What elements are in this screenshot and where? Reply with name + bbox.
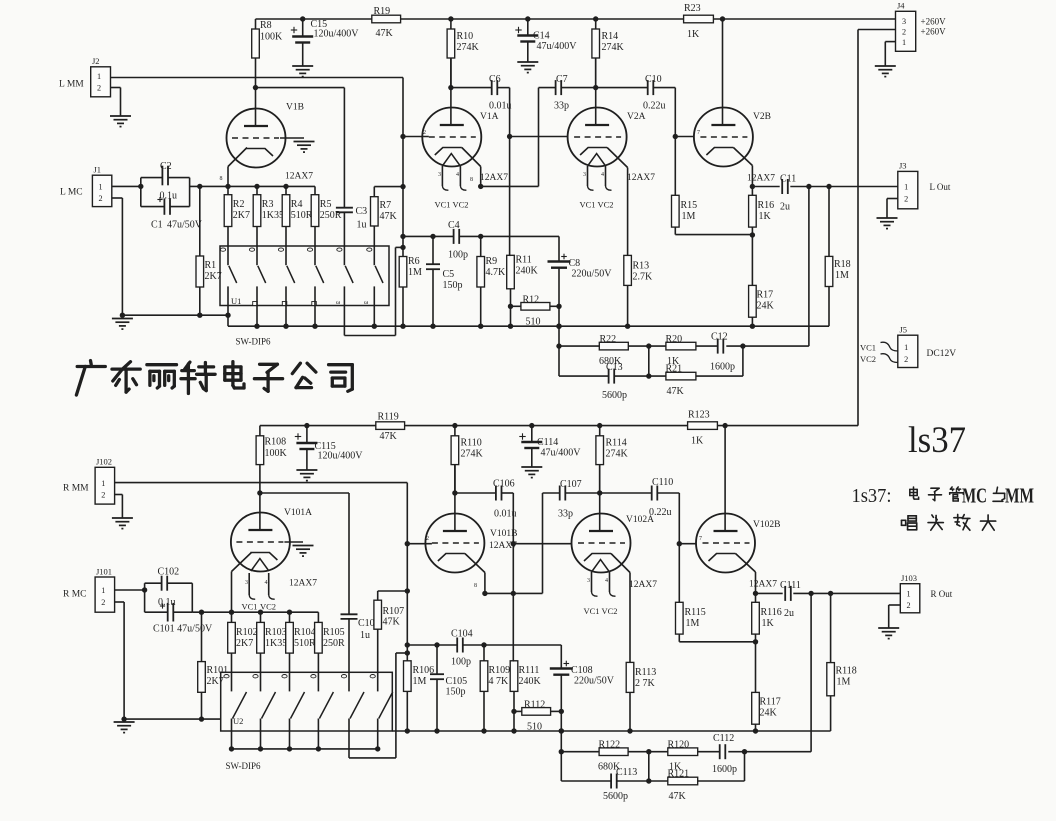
svg-text:R14: R14 — [602, 31, 619, 42]
connector J1 — [92, 175, 111, 206]
svg-text:V1B: V1B — [286, 103, 304, 113]
svg-text:12AX7: 12AX7 — [289, 579, 317, 589]
svg-text:VC2: VC2 — [860, 354, 876, 364]
triode V101A — [231, 513, 290, 572]
node feedback X3 — [740, 343, 745, 348]
svg-text:R19: R19 — [374, 6, 391, 17]
resistor R105 — [315, 622, 323, 653]
svg-text:C12: C12 — [711, 332, 728, 343]
svg-text:274K: 274K — [606, 449, 629, 460]
svg-text:1: 1 — [97, 72, 101, 81]
wire anode to C3 column — [256, 87, 345, 89]
svg-text:R12: R12 — [523, 295, 540, 306]
wire anode to C103 column — [260, 492, 349, 494]
wire ground bus upper (bottom) — [124, 718, 221, 720]
resistor R104 — [286, 622, 294, 653]
svg-text:R8: R8 — [260, 20, 272, 31]
wire J102 pin2 to ground — [115, 494, 123, 496]
connector J3 — [898, 171, 918, 208]
wire main ground bus (bottom) — [392, 730, 830, 732]
vc pins V2A — [587, 166, 589, 186]
ground under C15 — [292, 65, 313, 67]
wire ground bus upper — [122, 314, 228, 316]
capacitor C102 — [145, 582, 162, 584]
wire V2B grid — [675, 136, 694, 138]
node grid column junctions — [400, 184, 405, 189]
svg-text:R118: R118 — [836, 666, 857, 677]
capacitor C14 — [527, 19, 529, 35]
svg-text:100p: 100p — [451, 657, 471, 668]
svg-text:J4: J4 — [897, 1, 905, 11]
wire MM grid column — [402, 78, 404, 257]
svg-text:1600p: 1600p — [712, 764, 737, 775]
svg-text:3: 3 — [583, 172, 586, 178]
wire U2 cols to dip bus — [260, 719, 262, 749]
wire input block sides (bottom) — [144, 583, 146, 612]
wire V102A grid — [513, 543, 571, 545]
resistor R2 — [224, 195, 232, 227]
svg-text:R7: R7 — [380, 200, 392, 211]
resistor R5 — [311, 195, 319, 227]
svg-text:C102: C102 — [158, 567, 180, 578]
capacitor C7 — [539, 87, 556, 89]
svg-text:J101: J101 — [96, 567, 112, 577]
node grid column junctions (bottom) — [405, 588, 410, 593]
svg-text:C1: C1 — [151, 220, 163, 231]
vc pins V102A — [591, 572, 593, 592]
resistor R113 — [626, 662, 634, 692]
node V1A anode — [448, 85, 453, 90]
svg-text:33p: 33p — [554, 101, 569, 112]
wire V102A cathode to R113 — [611, 554, 630, 573]
wire V1A cathode — [462, 148, 481, 167]
svg-text:33p: 33p — [558, 509, 573, 520]
switch pole in U2 at x=260 — [260, 672, 262, 691]
node V101B anode — [452, 490, 457, 495]
svg-text:R117: R117 — [760, 697, 781, 708]
svg-text:R108: R108 — [265, 437, 287, 448]
svg-text:12AX7: 12AX7 — [749, 580, 777, 590]
svg-text:8: 8 — [220, 176, 223, 182]
wire C107 to V101B cathode — [542, 493, 544, 593]
svg-text:MC: MC — [962, 484, 987, 508]
svg-text:C106: C106 — [493, 479, 515, 490]
switch pole in U2 at x=318 — [317, 672, 319, 691]
svg-text:R120: R120 — [668, 740, 690, 751]
svg-text:R107: R107 — [383, 606, 405, 617]
svg-text:4 7K: 4 7K — [489, 676, 510, 687]
svg-text:+260V: +260V — [921, 17, 947, 27]
resistor R106 — [404, 661, 412, 692]
resistor R3 — [253, 195, 261, 227]
wire feedback tap from output (bottom) — [810, 593, 812, 751]
wire V2A grid — [510, 136, 568, 138]
svg-text:R20: R20 — [666, 334, 683, 345]
ground under J102 — [112, 517, 133, 519]
wire U1 col5 detour to R6 top — [343, 286, 345, 335]
capacitor C1 — [141, 206, 164, 208]
wire V101A plate lead — [259, 493, 261, 530]
svg-text:C110: C110 — [652, 477, 673, 488]
resistor R12 — [521, 303, 550, 311]
wire V102B grid (bottom) — [679, 543, 696, 545]
svg-text:C114: C114 — [537, 437, 558, 448]
svg-text:C113: C113 — [616, 767, 637, 778]
svg-text:47K: 47K — [380, 211, 398, 222]
svg-text:1u: 1u — [360, 630, 370, 641]
svg-text:R3: R3 — [262, 199, 274, 210]
svg-text:4.7K: 4.7K — [486, 267, 507, 278]
resistor R8 — [252, 29, 260, 58]
svg-text:C4: C4 — [448, 220, 460, 231]
resistor R103 — [257, 622, 265, 653]
svg-text:VC1: VC1 — [435, 200, 451, 210]
caption line 2 — [902, 519, 906, 521]
svg-text:100K: 100K — [260, 32, 283, 43]
svg-text:R15: R15 — [681, 200, 698, 211]
svg-text:1s37:: 1s37: — [852, 485, 892, 507]
wire V101A grid to ground — [284, 541, 303, 543]
resistor R120 — [668, 748, 698, 756]
svg-text:5600p: 5600p — [603, 791, 628, 802]
svg-text:1M: 1M — [682, 211, 696, 222]
svg-text:V2B: V2B — [753, 112, 771, 122]
svg-text:R21: R21 — [666, 364, 683, 375]
svg-text:2u: 2u — [784, 608, 794, 619]
svg-text:ω: ω — [364, 299, 369, 306]
svg-text:7: 7 — [699, 536, 702, 542]
svg-text:1M: 1M — [686, 618, 700, 629]
svg-text:J3: J3 — [899, 161, 907, 171]
svg-text:120u/400V: 120u/400V — [318, 451, 364, 462]
capacitor C101 — [145, 611, 168, 613]
wire J103 pin2 to ground — [889, 604, 901, 606]
svg-text:R105: R105 — [323, 627, 345, 638]
resistor R111 — [510, 661, 518, 692]
svg-text:R4: R4 — [291, 199, 303, 210]
svg-text:1M: 1M — [408, 267, 422, 278]
svg-text:2.7K: 2.7K — [633, 272, 654, 283]
svg-text:V2A: V2A — [627, 112, 646, 122]
svg-text:1K35: 1K35 — [265, 638, 287, 649]
wire MM grid column (bottom) — [406, 483, 408, 661]
capacitor C3 — [343, 88, 345, 208]
resistor R16 — [749, 195, 757, 227]
wire U2 col1 to dip bus — [231, 719, 233, 749]
resistor R7 — [371, 197, 379, 226]
resistor R114 — [596, 436, 604, 465]
svg-text:R MM: R MM — [63, 484, 89, 494]
triode V2B — [722, 19, 724, 126]
svg-text:C108: C108 — [571, 665, 593, 676]
svg-text:2: 2 — [423, 130, 426, 136]
svg-text:7: 7 — [697, 130, 700, 136]
svg-text:R114: R114 — [606, 438, 627, 449]
svg-text:C112: C112 — [713, 733, 734, 744]
capacitor C114 — [531, 426, 533, 441]
svg-text:VC2: VC2 — [602, 606, 618, 616]
svg-text:VC1: VC1 — [584, 606, 600, 616]
svg-text:2: 2 — [97, 84, 101, 93]
wire V101B cathode — [465, 554, 485, 573]
wire V2A cathode to R13 — [607, 148, 628, 168]
svg-text:12AX7: 12AX7 — [285, 172, 313, 182]
svg-text:1K: 1K — [759, 211, 772, 222]
svg-text:2: 2 — [101, 491, 105, 500]
svg-text:R13: R13 — [633, 261, 650, 272]
svg-text:1: 1 — [904, 343, 908, 352]
switch pole in U1 at x=257 — [256, 246, 258, 265]
svg-text:2u: 2u — [780, 202, 790, 213]
svg-text:5600p: 5600p — [602, 390, 627, 401]
svg-text:8: 8 — [470, 177, 473, 183]
triode V102A — [599, 465, 601, 532]
svg-text:0.22u: 0.22u — [643, 101, 666, 112]
capacitor C110 — [600, 492, 652, 494]
svg-text:C111: C111 — [780, 580, 801, 591]
resistor R101 — [198, 662, 206, 693]
resistor R18 — [825, 256, 833, 286]
wire feedback tap from output — [808, 187, 810, 347]
svg-text:12AX7: 12AX7 — [747, 174, 775, 184]
svg-text:+260V: +260V — [921, 27, 947, 37]
wire J3 pin2 to ground — [887, 198, 898, 200]
svg-text:274K: 274K — [457, 42, 480, 53]
svg-text:R123: R123 — [688, 410, 710, 421]
capacitor C4 — [403, 235, 454, 237]
wire V101A cathode to R102 — [232, 553, 252, 572]
dip switch U1 — [220, 246, 389, 306]
node V102A anode — [597, 490, 602, 495]
resistor R9 — [477, 257, 485, 288]
svg-text:R23: R23 — [684, 3, 701, 14]
svg-text:2K7: 2K7 — [205, 271, 222, 282]
triode V2A — [595, 58, 597, 126]
svg-text:V102B: V102B — [753, 520, 780, 530]
svg-text:0.22u: 0.22u — [649, 507, 672, 518]
node feedback X1 — [556, 343, 561, 348]
wire V1B cathode to R2 — [228, 148, 247, 167]
svg-text:ls37: ls37 — [908, 419, 966, 460]
svg-text:0.01u: 0.01u — [489, 101, 512, 112]
wire dip bus — [232, 748, 378, 750]
svg-text:VC2: VC2 — [260, 602, 276, 612]
resistor R15 — [672, 195, 680, 227]
switch pole in U2 at x=289 — [289, 672, 291, 691]
capacitor C115 — [306, 426, 308, 442]
svg-text:120u/400V: 120u/400V — [314, 29, 360, 40]
svg-text:47u/400V: 47u/400V — [537, 41, 578, 52]
svg-text:47u/50V: 47u/50V — [167, 220, 203, 231]
capacitor C103 — [348, 493, 350, 614]
resistor R118 — [827, 663, 835, 696]
switch pole in U1 at x=374 — [373, 246, 375, 265]
switch pole in U1 at x=286 — [285, 246, 287, 265]
wire J101 pin1 to C102/C101 block — [115, 589, 145, 591]
svg-text:150p: 150p — [443, 280, 463, 291]
switch pole in U1 at x=228 — [227, 246, 229, 265]
svg-text:C13: C13 — [606, 362, 623, 373]
svg-text:510: 510 — [526, 317, 541, 328]
svg-text:1K35: 1K35 — [262, 210, 284, 221]
wire V102B cathode — [736, 554, 756, 573]
resistor R108 — [256, 436, 264, 465]
connector J101 — [95, 577, 115, 612]
svg-text:C10: C10 — [645, 74, 662, 85]
dip switch U2 — [221, 672, 393, 731]
svg-text:1: 1 — [101, 586, 105, 595]
capacitor C5 — [432, 236, 434, 264]
svg-text:1K: 1K — [691, 436, 704, 447]
svg-text:1: 1 — [98, 183, 102, 192]
connector J5 — [898, 335, 918, 367]
svg-text:3: 3 — [245, 580, 248, 586]
capacitor C105 — [436, 645, 438, 674]
resistor R123 — [688, 422, 718, 430]
connector J103 — [900, 584, 920, 613]
wire J2 pin1 L-MM input to grid column — [111, 77, 404, 79]
svg-text:V101A: V101A — [284, 508, 312, 518]
svg-text:C105: C105 — [446, 676, 468, 687]
wire J1 pin2 to ground bus — [112, 197, 123, 199]
svg-text:1: 1 — [101, 479, 105, 488]
node V1B anode — [253, 85, 258, 90]
svg-text:J2: J2 — [92, 56, 100, 66]
resistor R22 — [599, 342, 628, 350]
wire J102 pin1 R-MM input to grid column — [115, 482, 408, 484]
svg-text:R11: R11 — [516, 255, 532, 266]
svg-text:510: 510 — [527, 722, 542, 733]
svg-text:C14: C14 — [533, 31, 550, 42]
ground at V101A grid — [293, 545, 314, 547]
svg-text:SW-DIP6: SW-DIP6 — [236, 337, 272, 347]
svg-text:274K: 274K — [461, 449, 484, 460]
svg-text:R115: R115 — [685, 607, 706, 618]
svg-text:2K7: 2K7 — [236, 638, 253, 649]
svg-text:R109: R109 — [489, 665, 511, 676]
wire C10 to V2B grid and R15 — [674, 88, 676, 196]
svg-text:VC2: VC2 — [598, 200, 614, 210]
svg-text:R17: R17 — [757, 290, 774, 301]
svg-text:240K: 240K — [519, 676, 542, 687]
svg-text:2: 2 — [101, 598, 105, 607]
connector J102 — [95, 467, 115, 504]
svg-text:SW-DIP6: SW-DIP6 — [226, 761, 262, 771]
switch pole in U1 at x=344 — [343, 246, 345, 265]
wire C106 to V102A grid and R111 — [512, 493, 514, 661]
ground under C114 — [521, 466, 542, 468]
capacitor C12 — [726, 345, 743, 347]
wire input block sides — [140, 178, 142, 207]
svg-text:C8: C8 — [569, 258, 581, 269]
svg-text:2: 2 — [426, 536, 429, 542]
switch pole in U2 at x=377 — [377, 672, 379, 691]
ground under J4 — [875, 65, 896, 67]
svg-text:220u/50V: 220u/50V — [572, 269, 613, 280]
svg-text:2 7K: 2 7K — [635, 678, 656, 689]
connector J2 — [91, 67, 111, 97]
svg-text:R16: R16 — [758, 200, 775, 211]
svg-text:C101 47u/50V: C101 47u/50V — [153, 624, 213, 635]
svg-text:1: 1 — [904, 183, 908, 192]
svg-text:R2: R2 — [233, 199, 245, 210]
svg-text:1M: 1M — [413, 676, 427, 687]
svg-text:L MM: L MM — [59, 80, 84, 90]
wire V1B grid to ground — [280, 137, 304, 139]
svg-text:J5: J5 — [900, 325, 908, 335]
svg-text:250R: 250R — [323, 638, 345, 649]
svg-text:240K: 240K — [516, 266, 539, 277]
svg-text:12AX7: 12AX7 — [629, 580, 657, 590]
company name text — [89, 361, 93, 365]
svg-text:R113: R113 — [635, 667, 656, 678]
svg-text:C104: C104 — [451, 629, 473, 640]
svg-text:2: 2 — [904, 195, 908, 204]
resistor R11 — [507, 255, 515, 288]
svg-text:510R: 510R — [294, 638, 316, 649]
wire C110 to V102B grid and R115 — [678, 493, 680, 602]
svg-text:2: 2 — [902, 28, 906, 37]
svg-text:C3: C3 — [356, 206, 368, 217]
svg-text:J1: J1 — [94, 165, 102, 175]
resistor R14 — [592, 29, 600, 58]
resistor R6 — [399, 257, 407, 288]
switch pole in U2 at x=349 — [348, 672, 350, 691]
svg-text:47K: 47K — [669, 791, 687, 802]
node V101A anode — [257, 490, 262, 495]
svg-text:12AX7: 12AX7 — [480, 173, 508, 183]
node feedback X1 (bottom) — [559, 749, 564, 754]
svg-text:R10: R10 — [457, 31, 474, 42]
ground under J1 — [112, 318, 133, 320]
capacitor C111 — [756, 592, 783, 594]
svg-text:4: 4 — [456, 172, 459, 178]
svg-text:MM: MM — [1005, 484, 1034, 508]
svg-text:R22: R22 — [600, 334, 617, 345]
wire U1 col1 to ground bus — [227, 286, 229, 326]
capacitor C104 — [407, 644, 457, 646]
wire J4 pin2 B+ down-feed — [858, 29, 896, 31]
ground under J2 — [110, 115, 131, 117]
svg-text:C2: C2 — [160, 161, 172, 172]
svg-text:1K: 1K — [687, 29, 700, 40]
resistor R17 — [749, 285, 757, 317]
wire J101 pin2 to ground bus — [115, 601, 125, 603]
svg-text:3: 3 — [902, 17, 906, 26]
wire bottom supply rail — [260, 425, 376, 427]
svg-text:1K: 1K — [762, 618, 775, 629]
svg-text:3: 3 — [438, 172, 441, 178]
node feedback X3 (bottom) — [742, 749, 747, 754]
svg-text:8: 8 — [474, 583, 477, 589]
svg-text:R5: R5 — [320, 199, 332, 210]
svg-text:R Out: R Out — [931, 589, 953, 599]
resistor R13 — [624, 255, 632, 285]
resistor R23 — [684, 15, 714, 23]
wire J2 pin2 to ground — [111, 87, 121, 89]
svg-text:47K: 47K — [376, 28, 394, 39]
svg-text:4: 4 — [601, 172, 604, 178]
svg-text:2K7: 2K7 — [233, 210, 250, 221]
ground under J3 — [877, 217, 898, 219]
capacitor C8 — [558, 236, 560, 261]
resistor R115 — [676, 602, 684, 634]
svg-text:1: 1 — [902, 38, 906, 47]
resistor R121 — [668, 777, 698, 785]
capacitor C106 — [455, 492, 496, 494]
svg-text:47K: 47K — [667, 386, 685, 397]
svg-text:47K: 47K — [380, 431, 398, 442]
